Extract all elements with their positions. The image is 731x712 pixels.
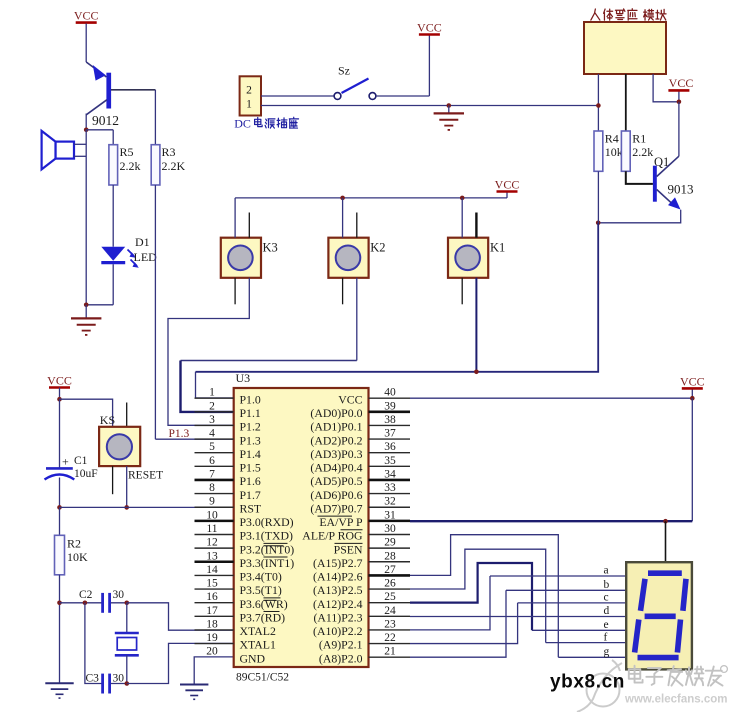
wire node to C2 [60,602,102,604]
svg-text:38: 38 [384,414,396,426]
wire speaker branch [85,130,87,305]
svg-text:XTAL2: XTAL2 [240,624,277,638]
svg-text:21: 21 [384,646,396,658]
wire P2.3 to segment a (riser) [410,576,490,630]
svg-text:www.elecfans.com: www.elecfans.com [624,693,727,705]
svg-text:P1.6: P1.6 [240,474,261,488]
svg-text:33: 33 [384,482,396,494]
svg-text:b: b [604,579,610,591]
svg-text:(A9)P2.1: (A9)P2.1 [319,638,363,652]
wire Q1 emitter to node [598,210,681,223]
wire sensor output down to K1 rail [196,223,599,372]
pin 26 (A13)P2.5 [369,588,411,590]
svg-text:(A13)P2.5: (A13)P2.5 [313,583,363,597]
pushbutton K3 [221,238,261,278]
svg-text:P1.5: P1.5 [240,461,261,475]
wire switch to VCC [376,95,429,97]
svg-text:6: 6 [209,455,215,467]
node module pin1 junction [596,103,601,108]
svg-text:GND: GND [240,651,266,665]
pin 29 PSEN [369,547,411,549]
power VCC (button rail) [506,192,508,198]
pin 23 (A10)P2.2 [369,629,411,631]
node K1 junction [474,370,479,375]
wire K1 down to P1.0 rail [475,278,477,372]
svg-text:34: 34 [384,468,396,480]
svg-text:30: 30 [113,673,125,685]
wire collector down [85,114,87,130]
pin 35 (AD4)P0.4 [369,465,411,467]
svg-text:(A12)P2.4: (A12)P2.4 [313,597,363,611]
wire module pin1 to R4 [597,74,599,131]
svg-text:R5: R5 [120,145,134,159]
svg-text:(AD5)P0.5: (AD5)P0.5 [310,474,362,488]
svg-text:P1.2: P1.2 [240,420,261,434]
module U2 human-body sensor [584,22,666,74]
svg-text:K2: K2 [370,240,385,254]
svg-text:P1.4: P1.4 [240,447,261,461]
svg-text:C3: C3 [86,673,100,685]
pin 8 P1.7 [195,493,234,495]
svg-text:2.2k: 2.2k [120,159,141,173]
wire RST to chip pin9 [60,506,234,508]
svg-text:Sz: Sz [338,64,350,78]
svg-text:29: 29 [384,537,396,549]
pin 1 P1.0 [195,397,234,399]
wire segment b lead [506,589,626,591]
svg-text:VCC: VCC [417,21,442,35]
svg-text:VCC: VCC [74,9,99,23]
pin 14 P3.4(T0) [195,574,234,576]
wire button VCC rail [235,197,507,199]
wire VCC to KS [60,399,113,427]
wire KS to RST [126,466,128,507]
wire left cap bus down [85,603,102,684]
capacitor C2 30pF [101,593,104,613]
svg-text:5: 5 [209,441,215,453]
node C2-C3 left junction [83,601,88,606]
svg-text:27: 27 [384,564,396,576]
svg-text:ALE/P ROG: ALE/P ROG [302,529,363,543]
svg-text:10K: 10K [67,550,88,564]
svg-text:VCC: VCC [495,178,520,192]
svg-text:35: 35 [384,455,396,467]
svg-text:(AD7)P0.7: (AD7)P0.7 [310,501,362,515]
pin 19 XTAL1 [195,643,234,645]
svg-text:(A10)P2.2: (A10)P2.2 [313,624,363,638]
node Q1 collector junction [677,100,682,105]
pin 12 P3.2(INT0) [195,547,234,549]
wire P1.0 riser [196,372,234,398]
wire P2.5 to segment e (thick bump) [410,563,532,630]
pin 32 (AD7)P0.7 [369,506,411,508]
wire segment e lead [532,629,626,631]
node C2-crystal junction [125,601,130,606]
wire P2.4 to segment d [410,616,626,618]
svg-text:EA/VP P: EA/VP P [319,515,363,529]
svg-text:31: 31 [384,509,396,521]
wire K3 bottom stub [234,278,236,305]
svg-text:(AD6)P0.6: (AD6)P0.6 [310,488,362,502]
pin 25 (A12)P2.4 [369,602,411,604]
ground (chip GND) [180,684,208,686]
svg-text:a: a [604,565,609,577]
node VCC-C1 junction [57,397,62,402]
wire K1 top leg [461,198,463,238]
node R4-emitter junction [596,221,601,226]
svg-text:20: 20 [206,646,218,658]
capacitor C1 10uF [59,399,61,468]
svg-text:XTAL1: XTAL1 [240,638,277,652]
pin 37 (AD2)P0.2 [369,438,411,440]
svg-text:P3.4(T0): P3.4(T0) [240,570,282,584]
svg-text:36: 36 [384,441,396,453]
pin 17 P3.7(RD) [195,615,234,617]
svg-text:19: 19 [206,632,218,644]
svg-text:(A15)P2.7: (A15)P2.7 [313,556,363,570]
svg-text:LED: LED [134,250,158,264]
svg-text:30: 30 [384,523,396,535]
wire P2.6 to segment f (bump) [410,549,546,642]
pin 33 (AD6)P0.6 [369,493,411,495]
wire VCC loop right side [691,398,693,521]
wire K3 to P1.2 [168,278,249,426]
wire KS bottom stub [112,466,114,494]
pin overlines [264,545,284,547]
pin 6 P1.5 [195,465,234,467]
transistor Q2 9012 (PNP) [86,62,111,115]
resistor R5 [109,145,118,185]
pin 15 P3.5(T1) [195,588,234,590]
svg-text:1: 1 [209,387,215,399]
wire junction to R5 [86,129,113,131]
svg-text:89C51/C52: 89C51/C52 [236,672,289,684]
resistor R3 [151,145,160,185]
svg-text:37: 37 [384,428,396,440]
pin 10 P3.0(RXD) [195,520,234,523]
node collector junction [84,128,89,133]
svg-text:R1: R1 [632,132,646,146]
svg-text:4: 4 [209,428,215,440]
pin 3 P1.2 [195,424,234,426]
svg-text:15: 15 [206,578,218,590]
node ground tap [447,103,452,108]
svg-text:18: 18 [206,618,218,630]
pin 39 (AD0)P0.0 [369,411,411,414]
svg-text:7: 7 [209,468,215,480]
node RST junction [57,505,62,510]
wire R1 to Q1 base [626,171,653,184]
svg-text:DC: DC [234,116,251,130]
svg-text:9: 9 [209,496,215,508]
display DS1 7-segment [626,562,692,669]
pin 9 RST [195,506,234,508]
svg-text:2: 2 [209,400,215,412]
wire K3 top leg [234,198,236,238]
svg-text:39: 39 [384,400,396,412]
svg-text:14: 14 [206,564,218,576]
node K2 rail junction [340,196,345,201]
wire C2 to XTAL2 [127,603,234,630]
IC U3 89C51 [234,388,369,667]
pin 34 (AD5)P0.5 [369,479,411,482]
wire GND pin to ground [194,657,234,684]
svg-text:P1.3: P1.3 [169,428,190,440]
svg-text:(AD4)P0.4: (AD4)P0.4 [310,461,362,475]
pin 21 (A8)P2.0 [369,656,411,658]
svg-text:40: 40 [384,387,396,399]
svg-text:g: g [604,646,610,658]
svg-text:2.2k: 2.2k [632,145,653,159]
pin 30 ALE/P ROG [369,534,411,536]
wire segment g lead [558,656,626,658]
speaker LS1 [42,131,74,170]
wire R5 to LED [112,185,114,247]
wire P2.7 to segment g (bump) [410,535,558,658]
svg-text:(AD1)P0.1: (AD1)P0.1 [310,420,362,434]
svg-text:c: c [604,592,609,604]
pushbutton KS [99,427,140,466]
node pin40 corner [690,396,695,401]
svg-text:C2: C2 [79,589,93,601]
pin 11 P3.1(TXD) [195,534,234,536]
svg-text:PSEN: PSEN [334,542,363,556]
wire segment a lead [490,575,626,577]
svg-text:ybx8.cn: ybx8.cn [550,672,625,693]
svg-text:P3.5(T1): P3.5(T1) [240,583,282,597]
diode D1 LED [101,247,139,268]
pin 18 XTAL2 [195,629,234,631]
svg-text:P1.0: P1.0 [240,392,261,406]
power VCC (module) [678,91,680,102]
pin 13 P3.3(INT1) [195,560,234,563]
svg-text:9012: 9012 [92,113,119,128]
wire R3 to P1.3 [154,185,156,439]
svg-text:P1.7: P1.7 [240,488,261,502]
wire EA pin31 (thick) [410,520,692,522]
wire R4 bottom [597,171,599,223]
svg-text:K1: K1 [490,240,505,254]
wire pin40 VCC net [410,397,692,399]
svg-text:P1.1: P1.1 [240,406,261,420]
wire C3 to XTAL1 [127,643,234,683]
node K1 rail junction [460,196,465,201]
svg-text:(A8)P2.0: (A8)P2.0 [319,651,363,665]
wire module pin3 to VCC [653,74,679,102]
svg-text:R4: R4 [605,132,619,146]
pin 31 EA/VP P [369,520,411,523]
wire module pin2 to R1 [625,74,627,131]
wire LED to ground node [112,264,114,305]
pushbutton K1 [448,238,488,278]
svg-text:RST: RST [240,501,262,515]
pin 38 (AD1)P0.1 [369,424,411,426]
svg-text:(AD3)P0.3: (AD3)P0.3 [310,447,362,461]
svg-text:16: 16 [206,591,218,603]
svg-text:P3.6(WR): P3.6(WR) [240,597,288,611]
pin 7 P1.6 [195,479,234,482]
node R2-C2 junction [57,601,62,606]
svg-text:P3.2(INT0): P3.2(INT0) [240,542,295,556]
watermark elecfans glyphs [629,666,643,683]
wire P2.1 to segment b (riser) [410,590,506,657]
svg-text:8: 8 [209,482,215,494]
svg-text:10: 10 [206,509,218,521]
ground (DC input) [448,106,450,114]
resistor R1 [621,131,630,171]
svg-text:25: 25 [384,591,396,603]
svg-text:10k: 10k [605,145,623,159]
svg-text:1: 1 [246,99,252,111]
svg-text:VCC: VCC [669,76,694,90]
pin 36 (AD3)P0.3 [369,452,411,454]
wire segment f lead [546,642,627,644]
svg-text:R2: R2 [67,537,81,551]
svg-text:30: 30 [113,589,125,601]
wire K2 top leg [342,198,344,238]
ground (R2 branch) [45,682,73,684]
svg-text:RESET: RESET [128,469,163,481]
pin 4 P1.3 [195,438,234,440]
svg-text:(AD0)P0.0: (AD0)P0.0 [310,406,362,420]
svg-text:e: e [604,619,609,631]
wire K2 to P1.1 (thick) [356,278,358,361]
node C3-crystal junction [125,681,130,686]
svg-text:d: d [604,605,610,617]
pin 5 P1.4 [195,452,234,454]
pin 16 P3.6(WR) [195,602,234,604]
svg-text:D1: D1 [135,235,150,249]
svg-text:f: f [604,631,608,643]
svg-text:P3.3(INT1): P3.3(INT1) [240,556,295,570]
svg-text:28: 28 [384,550,396,562]
svg-text:(A14)P2.6: (A14)P2.6 [313,570,363,584]
svg-text:U3: U3 [236,371,251,385]
transistor Q1 9013 (NPN) [653,102,681,210]
svg-text:24: 24 [384,605,396,617]
ground (speaker branch) [85,305,87,318]
wire base to R3 [111,89,155,91]
svg-text:(AD2)P0.2: (AD2)P0.2 [310,433,362,447]
svg-text:9013: 9013 [668,181,694,196]
svg-text:P3.7(RD): P3.7(RD) [240,610,286,624]
svg-text:(A11)P2.3: (A11)P2.3 [313,610,362,624]
node speaker-LED junction [84,303,89,308]
svg-text:VCC: VCC [338,392,362,406]
svg-text:12: 12 [206,537,218,549]
svg-text:VCC: VCC [47,374,72,388]
svg-text:17: 17 [206,605,218,617]
svg-text:3: 3 [209,414,215,426]
svg-text:10uF: 10uF [74,468,98,480]
svg-text:K3: K3 [263,240,278,254]
power VCC (pin40) [691,389,693,399]
crystal Y1 [126,603,128,633]
svg-text:2.2K: 2.2K [162,159,186,173]
wire display anode [665,521,667,562]
svg-text:P3.0(RXD): P3.0(RXD) [240,515,294,529]
wire R2 to ground [59,575,61,683]
pin 27 (A14)P2.6 [369,574,411,577]
wire P2.2 to segment c (riser) [410,603,518,644]
wire VCC to Q2 emitter [85,24,87,63]
pin 2 P1.1 [195,411,234,413]
node KS-RST junction [124,505,129,510]
pin 22 (A9)P2.1 [369,643,411,645]
svg-text:VCC: VCC [680,374,705,388]
svg-text:22: 22 [384,632,396,644]
svg-text:KS: KS [100,413,115,427]
svg-text:2: 2 [246,85,252,97]
svg-text:Q1: Q1 [654,155,669,169]
svg-text:P3.1(TXD): P3.1(TXD) [240,529,293,543]
svg-text:P1.3: P1.3 [240,433,261,447]
resistor R2 [59,507,61,535]
svg-text:13: 13 [206,550,218,562]
svg-text:32: 32 [384,496,396,508]
watermark logo circle [577,660,622,712]
pin 40 VCC [369,397,411,399]
pushbutton K2 [328,238,368,278]
resistor R4 [594,131,603,171]
pin 28 (A15)P2.7 [369,561,411,563]
connector J1 DC jack [240,76,261,115]
svg-text:11: 11 [206,523,217,535]
wire K1 bottom stub [461,278,463,305]
svg-text:26: 26 [384,578,396,590]
wire jack pin2 to switch [261,95,334,97]
wire K2 bottom stub [342,278,344,305]
svg-text:+: + [62,455,69,469]
svg-text:R3: R3 [162,145,176,159]
wire jack pin1 ground rail [261,105,598,107]
pin 24 (A11)P2.3 [369,615,411,617]
svg-text:C1: C1 [74,455,88,467]
svg-text:23: 23 [384,618,396,630]
wire segment c lead [518,602,627,604]
capacitor C3 30pF [101,674,104,694]
node display supply tap [663,519,668,524]
